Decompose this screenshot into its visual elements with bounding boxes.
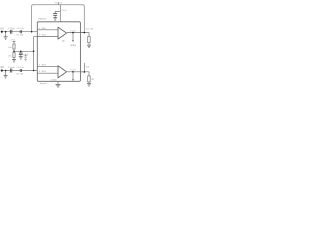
svg-text:C5 1μ: C5 1μ (61, 10, 66, 12)
svg-text:C2 1μF: C2 1μF (8, 67, 16, 69)
svg-text:R1 10k: R1 10k (17, 35, 25, 37)
svg-text:Vo1 1W: Vo1 1W (86, 29, 93, 31)
svg-text:IN2: IN2 (0, 67, 4, 69)
svg-text:1 OUT: 1 OUT (70, 30, 77, 32)
svg-text:R2 10k: R2 10k (17, 74, 25, 76)
svg-text:B: B (63, 75, 65, 77)
svg-text:10k: 10k (8, 47, 12, 49)
svg-text:Vo2: Vo2 (86, 66, 90, 68)
svg-text:C4 0.1μ: C4 0.1μ (17, 67, 25, 69)
svg-text:IN1: IN1 (0, 28, 4, 30)
svg-text:+: + (58, 8, 60, 10)
svg-text:8Ω: 8Ω (92, 79, 95, 81)
svg-text:C1 1μF: C1 1μF (8, 28, 16, 30)
svg-text:6 −IN B: 6 −IN B (39, 71, 46, 73)
svg-text:VCC: VCC (11, 39, 16, 41)
svg-text:0.1μF: 0.1μF (23, 55, 29, 57)
svg-text:10k: 10k (8, 55, 12, 57)
svg-text:7 OUT: 7 OUT (70, 70, 77, 72)
svg-text:4 GND: 4 GND (51, 79, 58, 81)
svg-text:2 −IN A: 2 −IN A (39, 34, 46, 37)
svg-text:5 +IN B: 5 +IN B (39, 64, 46, 66)
svg-text:bypass: bypass (40, 83, 47, 85)
svg-text:C3 0.1μ: C3 0.1μ (17, 28, 25, 30)
svg-text:(BIAS): (BIAS) (70, 44, 76, 47)
svg-text:VCC 5V: VCC 5V (55, 3, 63, 5)
svg-text:(A): (A) (62, 39, 65, 42)
svg-text:LM4863: LM4863 (38, 19, 47, 21)
svg-text:3 +IN A: 3 +IN A (39, 27, 46, 30)
